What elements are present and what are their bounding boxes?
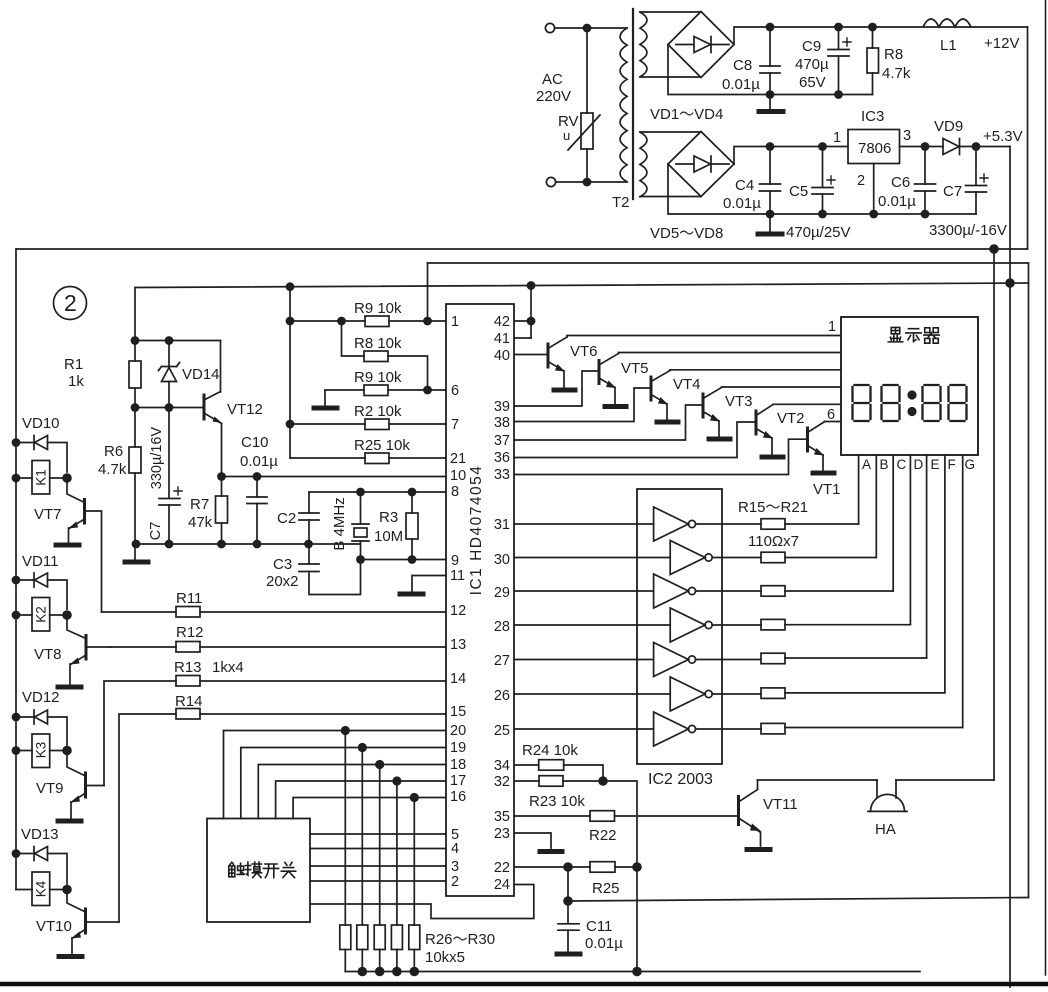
- svg-text:+12V: +12V: [984, 35, 1019, 52]
- svg-text:VT4: VT4: [673, 376, 701, 393]
- svg-text:VT10: VT10: [36, 918, 72, 935]
- crystal B 4MHz: [360, 492, 362, 524]
- svg-text:17: 17: [450, 773, 466, 789]
- node C8 top: [766, 23, 775, 32]
- node C5 bottom: [818, 210, 827, 219]
- wire pin36: [514, 422, 755, 458]
- wire bridge2 - rail: [668, 164, 873, 214]
- svg-text:D: D: [914, 457, 924, 472]
- wire: [556, 181, 627, 183]
- ground symbol: [125, 560, 148, 565]
- inner top line: [428, 263, 1029, 898]
- svg-text:26: 26: [494, 688, 510, 704]
- node C9 top: [834, 23, 843, 32]
- svg-text:T2: T2: [612, 194, 630, 211]
- svg-text:C: C: [897, 457, 907, 472]
- svg-text:36: 36: [494, 450, 510, 466]
- bridge rectifier VD1~VD4: [668, 12, 734, 78]
- wire pin8 line: [309, 491, 446, 493]
- resistor R14 (pin15): [119, 714, 176, 922]
- transistor VT3: [702, 394, 705, 417]
- ground below C4: [769, 214, 771, 231]
- wire IC3 pin2 down: [873, 164, 875, 215]
- svg-text:VD13: VD13: [21, 826, 59, 843]
- svg-text:32: 32: [494, 774, 510, 790]
- svg-text:VD10: VD10: [22, 415, 60, 432]
- resistor R2 10k (pin7): [290, 423, 365, 425]
- diode VD12: [16, 716, 34, 718]
- svg-text:28: 28: [494, 619, 510, 635]
- resistor R9 10k (pin1): [290, 320, 365, 322]
- +12V rail down right side: [1027, 27, 1029, 249]
- wire R23/R25 junction down to bottom line: [636, 867, 638, 972]
- +5.3V rail down right side: [1009, 147, 1011, 988]
- svg-text:7: 7: [451, 417, 459, 433]
- right page edge line: [1045, 0, 1047, 975]
- display terminal F: [944, 455, 946, 692]
- transistor VT1: [806, 428, 809, 451]
- svg-text:C7: C7: [148, 522, 164, 541]
- resistor R30: [413, 798, 415, 926]
- diode VD9: [943, 139, 959, 155]
- svg-text:C7: C7: [943, 183, 962, 200]
- svg-text:+5.3V: +5.3V: [983, 128, 1023, 145]
- capacitor C10: [256, 477, 258, 498]
- svg-text:VD5～VD8: VD5～VD8: [650, 225, 723, 242]
- transformer secondary winding 2: [640, 132, 647, 197]
- label xian shi qi (display) glyphs: [888, 327, 939, 343]
- svg-text:VT11: VT11: [763, 796, 798, 813]
- resistor R27: [361, 748, 363, 926]
- AC input terminal top: [545, 23, 554, 32]
- transistor VT9: [84, 773, 87, 797]
- svg-text:VT5: VT5: [621, 360, 649, 377]
- node C6 top: [921, 142, 930, 151]
- svg-text:0.01µ: 0.01µ: [240, 453, 278, 470]
- relay K4: [32, 872, 50, 906]
- inverter 4: [514, 624, 670, 626]
- resistor R13 (pin14): [104, 681, 176, 786]
- svg-text:2: 2: [857, 173, 865, 189]
- svg-text:9: 9: [451, 553, 459, 569]
- touch line pin16: [293, 798, 446, 819]
- svg-text:VT7: VT7: [34, 506, 62, 523]
- wire bridge2 + output to IC3: [734, 147, 848, 165]
- svg-text:1kx4: 1kx4: [212, 659, 244, 676]
- svg-text:35: 35: [494, 809, 510, 825]
- svg-text:R11: R11: [176, 590, 202, 607]
- svg-text:4: 4: [451, 841, 459, 857]
- node +5.3V on rail: [1005, 278, 1015, 288]
- wire pin40: [514, 354, 547, 356]
- svg-text:IC1 HD4074054: IC1 HD4074054: [468, 465, 485, 596]
- svg-text:0.01µ: 0.01µ: [722, 76, 760, 93]
- svg-text:VT12: VT12: [227, 401, 263, 418]
- seven segment digit 1: [853, 385, 967, 421]
- wire HA to +12V: [896, 779, 994, 781]
- svg-text:VD12: VD12: [22, 689, 60, 706]
- svg-text:21: 21: [450, 451, 466, 467]
- svg-text:0.01µ: 0.01µ: [878, 193, 916, 210]
- transistor VT4: [650, 377, 653, 400]
- svg-text:40: 40: [494, 348, 510, 364]
- transistor VT7: [83, 500, 86, 524]
- svg-text:C11: C11: [586, 918, 612, 935]
- node C6 bottom: [921, 210, 930, 219]
- transistor VT10: [84, 909, 87, 933]
- wire bridge1 + output to rail: [734, 27, 1028, 45]
- ground for R9 pin6: [324, 390, 326, 405]
- svg-text:8: 8: [451, 484, 459, 500]
- resistor R29: [396, 781, 398, 925]
- buzzer HA: [876, 780, 878, 797]
- wire pin10/33 line: [222, 476, 447, 478]
- svg-text:VT9: VT9: [36, 780, 64, 797]
- display terminal A: [858, 455, 860, 524]
- wire pin37: [514, 405, 702, 440]
- svg-text:R6: R6: [104, 443, 123, 460]
- svg-text:C3: C3: [273, 556, 292, 573]
- svg-text:G: G: [965, 457, 976, 472]
- IC1 box: [446, 304, 514, 896]
- display box: [841, 317, 978, 455]
- svg-text:R2 10k: R2 10k: [354, 403, 402, 420]
- diode VD14 (zener): [168, 341, 170, 367]
- svg-text:VT3: VT3: [725, 393, 753, 410]
- svg-text:31: 31: [494, 517, 510, 533]
- svg-text:R26～R30: R26～R30: [425, 931, 495, 948]
- capacitor C4: [769, 151, 771, 184]
- node R1/VD14 top: [131, 336, 140, 345]
- svg-text:16: 16: [450, 789, 466, 805]
- svg-text:C8: C8: [733, 57, 752, 74]
- svg-text:C5: C5: [789, 183, 808, 200]
- wire line2 drop x427: [427, 263, 429, 321]
- display terminal E: [926, 455, 928, 658]
- svg-text:K3: K3: [34, 742, 49, 759]
- AC input terminal bottom: [546, 177, 555, 186]
- wire rail drop x290: [289, 287, 291, 458]
- resistor R16: [712, 557, 761, 559]
- svg-text:29: 29: [494, 585, 510, 601]
- resistor R24 10k (pin34): [514, 764, 539, 766]
- svg-text:3: 3: [451, 859, 459, 875]
- wire +12V feed down to HA: [993, 249, 995, 780]
- inverter 2: [514, 557, 670, 559]
- display terminal B: [875, 455, 877, 558]
- svg-text:2: 2: [451, 874, 459, 890]
- bottom thick border: [0, 982, 1048, 987]
- transistor VT8: [85, 636, 88, 660]
- svg-text:R8 10k: R8 10k: [354, 335, 402, 352]
- node +12V drop x994: [989, 244, 999, 254]
- svg-text:30: 30: [494, 552, 510, 568]
- diode VD13: [16, 853, 34, 855]
- svg-text:VD11: VD11: [22, 553, 58, 570]
- resistor R23 10k (pin32): [514, 780, 539, 782]
- svg-text:R9 10k: R9 10k: [354, 300, 402, 317]
- svg-text:1: 1: [833, 130, 841, 146]
- svg-text:10M: 10M: [374, 528, 403, 545]
- svg-text:0.01µ: 0.01µ: [723, 195, 761, 212]
- svg-text:C10: C10: [241, 434, 269, 451]
- svg-text:B: B: [880, 457, 889, 472]
- svg-text:110Ωx7: 110Ωx7: [748, 533, 799, 550]
- left +12V border: [15, 249, 17, 890]
- svg-text:33: 33: [494, 467, 510, 483]
- diode VD10: [16, 442, 34, 444]
- resistor R15: [696, 523, 761, 525]
- resistor R11 (pin12): [102, 611, 177, 613]
- touch line to pin24 (jog): [310, 885, 534, 919]
- wire pin23 to ground: [514, 833, 551, 848]
- transistor VT11: [737, 797, 740, 825]
- resistor R3 10M: [411, 492, 413, 513]
- svg-text:37: 37: [494, 433, 510, 449]
- analog ground line: [133, 543, 360, 545]
- svg-text:IC3: IC3: [861, 108, 884, 125]
- transistor VT12: [203, 395, 206, 419]
- node B (RV bottom junction): [583, 178, 592, 187]
- relay K1: [32, 461, 50, 495]
- svg-text:IC2 2003: IC2 2003: [648, 771, 713, 788]
- svg-text:R9 10k: R9 10k: [354, 369, 402, 386]
- node rail/x290: [286, 282, 295, 291]
- wire sec1 top to bridge1: [640, 11, 701, 13]
- svg-text:0.01µ: 0.01µ: [585, 935, 623, 952]
- resistor R21: [696, 728, 761, 730]
- resistor R26: [344, 731, 346, 926]
- svg-text:F: F: [948, 457, 956, 472]
- svg-text:2: 2: [64, 290, 77, 316]
- relay K2: [32, 598, 50, 632]
- resistor R12 (pin13): [110, 646, 176, 648]
- regulator IC3 7806: [848, 130, 900, 164]
- transformer T2 core: [632, 9, 634, 199]
- base node line to VT12: [135, 407, 203, 409]
- node C5 top: [818, 142, 827, 151]
- svg-text:VT2: VT2: [777, 410, 805, 427]
- capacitor C7 330u/16V (electrolytic): [168, 408, 170, 499]
- node C8 bottom: [766, 90, 775, 99]
- display terminal G: [962, 455, 964, 727]
- display terminal D: [909, 455, 911, 625]
- relay K3: [32, 734, 50, 768]
- svg-text:24: 24: [494, 877, 510, 893]
- wire pin9 line: [361, 559, 447, 561]
- svg-text:41: 41: [494, 331, 510, 347]
- wire VT11 collector to HA: [758, 779, 878, 781]
- svg-text:34: 34: [494, 758, 510, 774]
- svg-text:R3: R3: [379, 509, 398, 526]
- node R1 bottom (base node): [131, 403, 140, 412]
- touch line pin5: [310, 833, 446, 835]
- svg-text:10kx5: 10kx5: [425, 949, 465, 966]
- svg-text:18: 18: [450, 757, 466, 773]
- IC2 box: [637, 489, 722, 764]
- capacitor C7 (electrolytic 3300u): [975, 151, 977, 185]
- label chu mo kai guan (touch switch) glyphs: [229, 862, 296, 878]
- capacitor C11: [567, 867, 569, 901]
- transistor VT6: [547, 344, 550, 367]
- svg-text:38: 38: [494, 415, 510, 431]
- svg-text:1: 1: [828, 319, 836, 335]
- wire pin38: [514, 388, 650, 422]
- svg-text:4.7k: 4.7k: [98, 461, 127, 478]
- inverter 6: [514, 693, 670, 695]
- svg-text:20x2: 20x2: [266, 573, 299, 590]
- transformer T2 primary winding: [620, 28, 627, 182]
- touch line pin18: [258, 765, 446, 819]
- svg-text:7806: 7806: [858, 140, 891, 157]
- touch switch box: [207, 819, 310, 923]
- bottom common line: [345, 971, 920, 973]
- node R8 top: [868, 23, 877, 32]
- wire IC3 output: [900, 146, 944, 148]
- svg-text:R1: R1: [64, 356, 83, 373]
- resistor R7 47k: [221, 477, 223, 497]
- svg-text:10: 10: [450, 468, 466, 484]
- node A (RV top junction): [583, 24, 592, 33]
- svg-text:K2: K2: [34, 606, 49, 623]
- svg-text:R25 10k: R25 10k: [354, 437, 410, 454]
- svg-text:20: 20: [450, 723, 466, 739]
- touch line pin20: [224, 731, 447, 819]
- inverter 3: [514, 590, 654, 592]
- svg-text:39: 39: [494, 399, 510, 415]
- svg-text:6: 6: [827, 407, 835, 423]
- inductor L1: [923, 19, 971, 27]
- transistor VT2: [755, 411, 758, 434]
- display terminal C: [892, 455, 894, 591]
- inverter 1: [514, 523, 654, 525]
- touch line pin3: [310, 865, 446, 867]
- svg-text:AC: AC: [542, 71, 563, 88]
- svg-text:VD1～VD4: VD1～VD4: [650, 106, 723, 123]
- svg-text:15: 15: [450, 704, 466, 720]
- wire: [555, 27, 627, 29]
- svg-text:3300µ/-16V: 3300µ/-16V: [929, 222, 1007, 239]
- node C4 top: [766, 142, 775, 151]
- resistor R22 (pin35): [514, 815, 590, 817]
- resistor R19: [696, 659, 761, 661]
- touch line pin17: [276, 781, 446, 819]
- resistor R8 10k (pin1 to pin6 net): [342, 321, 365, 356]
- svg-text:R7: R7: [190, 496, 209, 513]
- svg-text:C9: C9: [802, 38, 821, 55]
- resistor R25 (pin22): [514, 866, 590, 868]
- node C4 bottom: [766, 210, 775, 219]
- wire pin42 to rail: [514, 320, 531, 322]
- resistor R18: [712, 624, 761, 626]
- capacitor C5 (electrolytic): [822, 151, 824, 187]
- svg-text:VT1: VT1: [813, 481, 841, 498]
- svg-text:C4: C4: [735, 177, 754, 194]
- touch line pin4: [310, 848, 446, 850]
- svg-text:VD14: VD14: [182, 366, 220, 383]
- svg-text:27: 27: [494, 653, 510, 669]
- svg-text:E: E: [931, 457, 940, 472]
- svg-text:3: 3: [903, 128, 911, 144]
- lower rail to C7: [873, 213, 977, 215]
- colon: [907, 390, 916, 399]
- bridge rectifier VD5~VD8: [668, 132, 734, 197]
- capacitor C3: [308, 544, 310, 564]
- svg-text:22: 22: [494, 860, 510, 876]
- ground below C8: [769, 95, 771, 110]
- touch line pin2: [310, 880, 446, 882]
- resistor R28: [379, 765, 381, 926]
- resistor R20: [712, 693, 761, 695]
- svg-text:19: 19: [450, 740, 466, 756]
- node pin2 bottom: [869, 210, 878, 219]
- touch line pin19: [241, 748, 446, 819]
- capacitor C6: [924, 151, 926, 184]
- diode VD11: [16, 579, 34, 581]
- wire sec2 top to bridge2: [640, 131, 701, 133]
- resistor R17: [696, 590, 761, 592]
- svg-text:u: u: [563, 128, 570, 143]
- svg-text:1k: 1k: [68, 373, 84, 390]
- svg-text:R14: R14: [175, 693, 203, 710]
- seven segment digit 3: [923, 385, 941, 421]
- seven segment digit 4: [949, 385, 967, 421]
- svg-text:R24 10k: R24 10k: [522, 742, 578, 759]
- svg-text:R8: R8: [884, 46, 903, 63]
- svg-text:VT6: VT6: [570, 343, 598, 360]
- svg-text:11: 11: [450, 568, 465, 584]
- svg-text:470µ: 470µ: [795, 56, 829, 73]
- wire pin33: [514, 439, 806, 474]
- svg-text:330µ/16V: 330µ/16V: [149, 426, 165, 489]
- wire pin39: [514, 371, 598, 406]
- resistor R1 1k: [134, 288, 136, 362]
- wire bridge1 - output: [668, 45, 873, 95]
- svg-text:R25: R25: [592, 880, 620, 897]
- svg-text:VT8: VT8: [34, 646, 62, 663]
- svg-text:A: A: [862, 457, 871, 472]
- transistor VT5: [598, 361, 601, 384]
- svg-text:4.7k: 4.7k: [882, 65, 911, 82]
- bottom line from right border to C11: [568, 898, 1029, 902]
- svg-text:220V: 220V: [536, 88, 571, 105]
- wire pin11 to ground: [412, 576, 446, 592]
- svg-text:470µ/25V: 470µ/25V: [786, 224, 851, 241]
- svg-text:C6: C6: [891, 174, 910, 191]
- svg-text:K1: K1: [34, 469, 49, 486]
- capacitor C9 (electrolytic): [838, 31, 840, 49]
- resistor R9 10k (pin6): [325, 389, 364, 391]
- resistor R8: [872, 31, 874, 48]
- wire top node to VT12 collector: [135, 340, 221, 342]
- capacitor C2: [308, 492, 310, 513]
- svg-text:13: 13: [450, 637, 466, 653]
- svg-text:HA: HA: [875, 821, 896, 838]
- svg-text:L1: L1: [940, 37, 957, 54]
- svg-text:47k: 47k: [188, 514, 213, 531]
- svg-text:65V: 65V: [799, 74, 826, 91]
- svg-text:R12: R12: [176, 624, 204, 641]
- node VT12 emitter / pin10 line: [217, 472, 226, 481]
- svg-text:R23 10k: R23 10k: [529, 793, 585, 810]
- svg-text:K4: K4: [34, 880, 49, 897]
- svg-text:1: 1: [451, 314, 459, 330]
- svg-text:14: 14: [450, 671, 466, 687]
- svg-text:VD9: VD9: [934, 118, 963, 135]
- inverter 7: [514, 728, 654, 730]
- wire sec1 bottom to bridge1: [640, 76, 701, 78]
- node C7 top: [972, 142, 981, 151]
